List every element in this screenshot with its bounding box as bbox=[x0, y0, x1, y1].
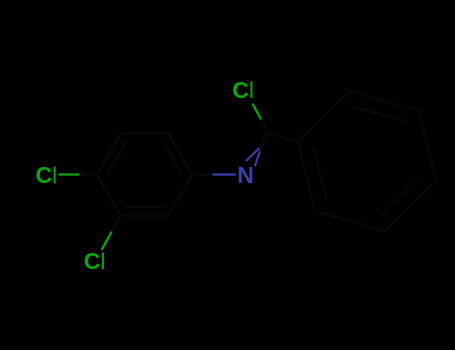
svg-text:C: C bbox=[36, 162, 53, 188]
svg-text:N: N bbox=[237, 162, 254, 188]
bond C1-N (blue half) bbox=[214, 173, 236, 175]
bond C-Cl top (dark half) bbox=[261, 119, 269, 134]
left ring inner double bond C5=C6 bbox=[126, 206, 163, 208]
svg-text:C: C bbox=[84, 248, 101, 274]
atom label Cl (left, position 4) bbox=[36, 162, 56, 188]
right benzene ring outline bbox=[298, 91, 436, 231]
bond C5-Cl (dark half) bbox=[111, 216, 120, 233]
left ring inner double bond C3=C4 bbox=[108, 142, 126, 174]
left ring inner double bond C1=C2 bbox=[163, 142, 182, 174]
double bond N=C line 2 (blue half) bbox=[255, 151, 260, 166]
bond C4-Cl (green half) bbox=[60, 173, 79, 175]
bond C4-Cl (dark half) bbox=[78, 173, 97, 175]
double bond N=C line 1 (blue half) bbox=[247, 148, 261, 161]
right ring inner double bond R6=R1 bbox=[313, 146, 327, 200]
right ring inner double bond R2=R3 bbox=[353, 107, 407, 123]
atom label Cl (top, on imidoyl carbon) bbox=[232, 77, 252, 103]
bond C5-Cl (green half) bbox=[102, 232, 111, 249]
double bond N=C line 2 (dark half) bbox=[260, 137, 268, 151]
right ring inner double bond R4=R5 bbox=[381, 176, 421, 215]
svg-text:C: C bbox=[232, 77, 249, 103]
double bond N=C line 1 (dark half) bbox=[260, 132, 267, 148]
atom label Cl (bottom, position 3) bbox=[84, 248, 104, 274]
left benzene ring (3,4-dichlorophenyl), outline bbox=[97, 133, 192, 215]
bond C-Cl top (green half) bbox=[253, 105, 261, 119]
bond C-ipso (to right phenyl) bbox=[268, 133, 298, 141]
bond C1-N (dark half) bbox=[192, 173, 214, 175]
